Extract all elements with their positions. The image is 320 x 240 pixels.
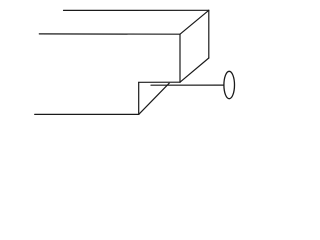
bar bottom-right depth edge — [180, 58, 209, 82]
roller ellipse — [224, 71, 235, 98]
bar back-right vertical edge — [208, 10, 210, 58]
notch front vertical edge — [138, 82, 140, 114]
notch top shelf edge — [139, 81, 180, 83]
bar top-right depth edge — [180, 10, 209, 34]
bar top back edge — [64, 9, 209, 11]
bar bottom front edge — [35, 113, 139, 115]
notch depth diagonal edge — [139, 83, 170, 114]
axle rod — [151, 84, 224, 86]
bar top front edge — [39, 33, 180, 35]
bar front-right vertical edge — [179, 34, 181, 82]
